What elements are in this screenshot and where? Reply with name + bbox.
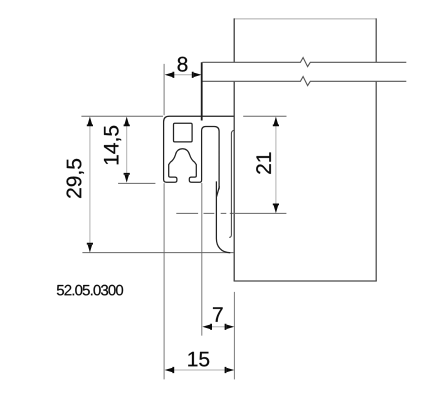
- dimension text 14,5: [104, 126, 121, 164]
- shelf panel top line with break symbol: [202, 58, 406, 67]
- dimension 29,5 line: [89, 126, 91, 244]
- dimension 8 right arrow: [192, 72, 202, 78]
- dimension 21 top arrow: [273, 117, 279, 127]
- centerline (dash-dot) y=213.6: [176, 212, 286, 214]
- dimension 8 line: [174, 74, 193, 76]
- shelf panel end edge (bold): [201, 62, 203, 120]
- dimension text 7: [213, 307, 223, 321]
- extension line bottom of hook y=252.9: [82, 252, 233, 254]
- dimension 15 right arrow: [225, 367, 235, 373]
- dimension 14,5 bottom arrow: [124, 173, 130, 183]
- dimension 8 left arrow: [165, 72, 175, 78]
- hook inner edge lower part with jog: [216, 181, 230, 252]
- dimension 15 line: [173, 369, 225, 371]
- shelf panel bottom line with break symbol: [202, 77, 406, 86]
- dimension 29,5 bottom arrow: [87, 243, 93, 253]
- wall panel right edge: [375, 18, 377, 281]
- dimension text 21: [256, 153, 271, 174]
- dimension text 8: [178, 57, 188, 72]
- dimension 21 line: [275, 125, 277, 204]
- wall panel left edge: [233, 18, 235, 281]
- dimension 14,5 top arrow: [124, 117, 130, 127]
- dimension 7 right arrow: [225, 324, 235, 330]
- dimension text 29,5: [67, 159, 84, 198]
- dimension text 15: [188, 352, 209, 367]
- extension line top of profile y=115.8: [81, 115, 163, 117]
- dimension 21 bottom arrow: [273, 204, 279, 214]
- part number text 52.05.0300: [57, 285, 123, 296]
- extension line left x=164.4: [163, 64, 165, 380]
- dimension 7 line: [211, 326, 225, 328]
- wall panel top edge: [234, 18, 376, 20]
- profile main outline: [164, 116, 234, 189]
- dimension 7 left arrow: [202, 324, 212, 330]
- square hole: [174, 123, 193, 142]
- extension line middle x=201.8: [201, 183, 203, 336]
- extension line right x=234.4: [233, 292, 235, 380]
- wall panel bottom edge: [234, 280, 377, 282]
- dimension 14,5 line: [126, 126, 128, 174]
- wall rail tongue: [229, 130, 234, 237]
- extension line bottom of body y=183: [118, 182, 155, 184]
- dimension 29,5 top arrow: [87, 117, 93, 127]
- dimension 15 left arrow: [165, 367, 175, 373]
